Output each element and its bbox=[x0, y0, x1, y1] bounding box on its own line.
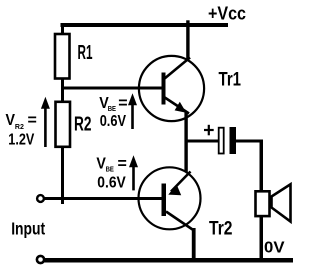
svg-text:=: = bbox=[118, 155, 127, 172]
capacitor C1 positive plate bbox=[219, 128, 224, 154]
svg-text:V: V bbox=[6, 112, 16, 129]
node V_BE2 arrow bbox=[129, 155, 138, 190]
svg-text:0V: 0V bbox=[264, 240, 285, 257]
wire 0V rail bbox=[45, 258, 294, 263]
wire base of Tr1 bbox=[61, 87, 163, 90]
svg-text:=: = bbox=[28, 112, 37, 129]
resistor R2 bbox=[56, 102, 71, 147]
resistor R1 bbox=[55, 34, 70, 79]
svg-text:Tr2: Tr2 bbox=[209, 218, 233, 240]
transistor Tr2 circle bbox=[139, 167, 201, 229]
svg-text:R1: R1 bbox=[78, 42, 93, 64]
capacitor C1 plus sign bbox=[204, 125, 214, 136]
wire Tr1 collector bbox=[186, 25, 189, 59]
wire capacitor to speaker bbox=[236, 140, 263, 143]
svg-text:+Vcc: +Vcc bbox=[208, 4, 246, 24]
transistor Tr1 emitter arrowhead bbox=[175, 102, 187, 113]
svg-text:Input: Input bbox=[11, 219, 45, 239]
wire speaker to 0V rail bbox=[260, 216, 264, 260]
wire R1 bottom bbox=[61, 78, 64, 88]
wire input to Tr2 base bbox=[45, 197, 163, 200]
svg-text:BE: BE bbox=[108, 104, 116, 113]
input terminal bottom bbox=[37, 256, 44, 263]
wire emitter to capacitor bbox=[185, 140, 218, 143]
wire R1 to rail bbox=[61, 25, 64, 34]
transistor Tr2 base bar bbox=[162, 184, 167, 217]
wire R2 bottom bbox=[61, 147, 64, 205]
wire Tr1 emitter down to Tr2 bbox=[184, 112, 187, 172]
capacitor C1 negative plate bbox=[230, 127, 237, 154]
wire R2 top bbox=[61, 89, 64, 102]
input terminal top bbox=[37, 195, 44, 202]
speaker box bbox=[256, 191, 270, 216]
wire speaker drop bbox=[260, 140, 264, 192]
svg-text:0.6V: 0.6V bbox=[100, 113, 127, 130]
junction nub at Vcc rail bbox=[186, 20, 189, 23]
transistor Tr1 emitter stroke bbox=[164, 97, 189, 114]
wire Tr2 collector to 0V rail bbox=[192, 228, 196, 261]
transistor Tr1 circle bbox=[139, 56, 204, 121]
svg-text:0.6V: 0.6V bbox=[97, 175, 126, 192]
svg-text:=: = bbox=[118, 95, 127, 112]
svg-text:R2: R2 bbox=[74, 114, 92, 136]
transistor Tr2 emitter stroke bbox=[171, 172, 191, 192]
transistor Tr1 base bar bbox=[162, 73, 166, 105]
wire +Vcc rail bbox=[61, 23, 229, 27]
speaker cone bbox=[272, 184, 291, 221]
transistor Tr1 collector stroke bbox=[164, 58, 190, 80]
transistor Tr2 collector stroke bbox=[166, 212, 193, 230]
node V_BE1 arrow bbox=[128, 93, 137, 129]
svg-text:R2: R2 bbox=[15, 122, 24, 131]
transistor Tr2 emitter arrowhead bbox=[168, 184, 181, 195]
node V_R2 arrow bbox=[41, 97, 50, 147]
svg-text:BE: BE bbox=[106, 165, 114, 174]
svg-text:Tr1: Tr1 bbox=[219, 68, 242, 90]
svg-text:1.2V: 1.2V bbox=[8, 131, 34, 148]
